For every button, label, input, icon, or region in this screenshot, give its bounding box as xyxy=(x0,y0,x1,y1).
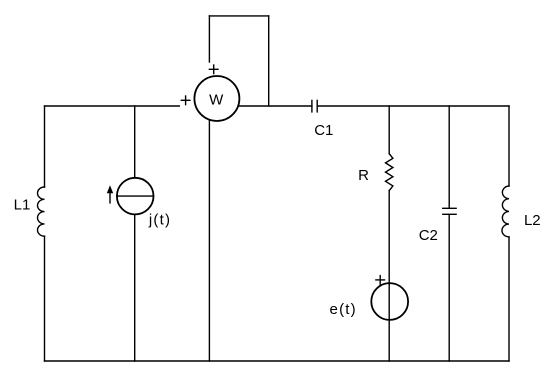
wire j branch top xyxy=(134,106,136,178)
wire left rail top xyxy=(44,106,46,187)
svg-text:L2: L2 xyxy=(524,212,541,229)
wire R branch bottom through e(t) xyxy=(388,191,390,361)
wire L2 branch bottom xyxy=(508,237,510,361)
wire top bus left segment xyxy=(45,105,180,107)
svg-text:W: W xyxy=(209,92,224,109)
wire top loop horizontal xyxy=(209,15,268,17)
wire C2 branch top xyxy=(448,106,450,208)
inductor L2 xyxy=(502,186,509,237)
current source arrow xyxy=(107,185,113,203)
capacitor C1 xyxy=(312,100,317,112)
voltage source e(t) circle xyxy=(371,283,408,320)
wire L2 branch top xyxy=(508,106,510,186)
resistor R xyxy=(386,154,393,191)
svg-text:C1: C1 xyxy=(314,122,333,139)
current source j(t) circle xyxy=(117,178,154,215)
wire C2 branch bottom xyxy=(448,214,450,361)
wire bottom bus xyxy=(45,360,510,362)
svg-text:j(t): j(t) xyxy=(148,212,171,229)
wire wattmeter top lead xyxy=(208,16,210,62)
svg-text:e(t): e(t) xyxy=(330,301,357,318)
capacitor C2 xyxy=(443,208,456,214)
wire wattmeter bottom lead xyxy=(208,120,210,361)
wire R branch top xyxy=(388,106,390,154)
svg-text:R: R xyxy=(358,167,369,184)
svg-text:L1: L1 xyxy=(14,196,31,213)
wire top loop right vertical xyxy=(268,16,270,106)
plus sign left of wattmeter xyxy=(181,96,190,105)
wire j branch bottom xyxy=(134,214,136,361)
wire top bus right of C1 xyxy=(317,105,509,107)
wire top bus between W and C1 xyxy=(238,105,312,107)
svg-text:C2: C2 xyxy=(419,227,438,244)
plus sign above wattmeter xyxy=(209,65,218,74)
plus sign at e(t) xyxy=(376,276,385,285)
wattmeter U1 circle xyxy=(194,76,239,121)
inductor L1 xyxy=(38,187,45,236)
wire left rail bottom xyxy=(44,236,46,361)
